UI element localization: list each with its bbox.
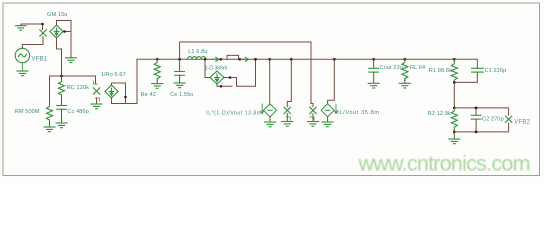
capacitor C1 220p [472, 68, 484, 72]
svg-text:1/Ro 6.67: 1/Ro 6.67 [101, 72, 126, 78]
ground below R2 [449, 139, 460, 144]
node dot C2 bottom [475, 131, 478, 134]
wire riser to diamond D1 [269, 59, 271, 105]
wire bus to Cout [373, 59, 375, 68]
node dot R2 bottom [453, 131, 456, 134]
node dot riser D2 [333, 58, 336, 61]
ground below D1 [265, 122, 276, 127]
node dot R1 bottom [453, 81, 456, 84]
capacitor Ce 1.55n [175, 59, 185, 75]
node dot riser X1 [290, 58, 293, 61]
pin tick below X2 [310, 117, 314, 120]
wire GM bottom to left bus with jog [57, 38, 62, 76]
ground below RM [44, 127, 55, 132]
wire X1 to ground [286, 114, 288, 122]
svg-text:Cout 22u: Cout 22u [380, 65, 404, 71]
svg-text:IL*(1-D)/Vout 13.8m: IL*(1-D)/Vout 13.8m [206, 110, 261, 116]
resistor RL 64 [402, 59, 408, 80]
wire R2 to ground [453, 132, 455, 139]
wire R1 bottom to R2 top [453, 82, 455, 108]
ground below GM loop [66, 58, 77, 63]
svg-text:RC 120k: RC 120k [67, 85, 90, 91]
pin tick above X of 1/Ro [94, 81, 98, 84]
svg-text:VFB1: VFB1 [32, 56, 48, 62]
node dot before arrow 2 [238, 58, 241, 61]
current arrow tick left of D1 [261, 104, 264, 114]
source VFB1 (sine circle) [15, 48, 29, 62]
wire GM output loop to ground [57, 21, 72, 58]
node dot Re junction [156, 58, 159, 61]
wire RM to ground [49, 122, 51, 127]
svg-text:VFB2: VFB2 [514, 120, 530, 126]
node dot at GM input corner [41, 23, 44, 26]
resistor R1 98.6k [451, 59, 457, 82]
svg-text:R2 12.9k: R2 12.9k [428, 111, 451, 117]
current arrow tick right of D2 [335, 104, 338, 114]
wire D1 to ground [269, 117, 271, 122]
ground G1 (input of GM multiplier) [16, 26, 27, 31]
node dot after arrow 1 [220, 58, 223, 61]
wire 1-D bottom stub [217, 84, 232, 86]
capacitor Cc 486p [57, 106, 67, 110]
pin tick below X of 1/Ro [96, 98, 100, 101]
node dot Ce / bypass riser junction [178, 58, 181, 61]
node dot 1-D left riser [204, 58, 207, 61]
inductor L1 6.8u [188, 57, 206, 60]
svg-text:IL/Vout 35.8m: IL/Vout 35.8m [337, 110, 379, 116]
wire 1/Ro diamond top bracket [112, 83, 126, 104]
svg-text:1-D 366m: 1-D 366m [205, 66, 228, 72]
node dot R1 top [453, 58, 456, 61]
wire Cc to ground [61, 109, 63, 122]
svg-text:RL 64: RL 64 [410, 65, 425, 71]
dependent source IL/Vout 35.8m (diamond D2) [321, 104, 334, 117]
wire Ce to ground [179, 75, 181, 82]
capacitor C2 270p [471, 108, 481, 132]
wire hump between transformer halves [227, 55, 239, 59]
ground below X1 [282, 122, 293, 127]
wire middle bus [137, 58, 454, 60]
svg-text:RM 500M: RM 500M [15, 109, 40, 115]
resistor RC 120k [59, 82, 65, 96]
wire 1/Ro bottom to middle bus [112, 59, 138, 103]
ground below Cout [368, 83, 379, 88]
node dot 1-D bottom [220, 85, 223, 88]
wire X2 to ground [312, 114, 314, 122]
node dot 1-D right vertex [229, 76, 232, 79]
wire VFB1 top to X bottom [22, 37, 43, 49]
wire 1-D right branch to bus [224, 59, 256, 86]
wire X to ground [96, 98, 98, 104]
resistor RM 500M [47, 105, 53, 122]
wire riser to X1 [287, 59, 291, 107]
polarity arrow 1 of ideal transformer [212, 57, 220, 61]
wire D2 to ground [327, 117, 329, 122]
dependent source IL*(1-D)/Vout 13.8m (diamond D1) [264, 104, 277, 117]
svg-text:Re 42: Re 42 [141, 92, 156, 98]
node dot riser D1 [268, 58, 271, 61]
ground below Re [152, 84, 163, 89]
svg-text:Cc 486p: Cc 486p [67, 109, 89, 115]
wire Cout to ground [373, 72, 375, 83]
ground below D2 [322, 122, 333, 127]
capacitor Cout 22u [369, 68, 379, 72]
wire bypass riser to X2 [311, 104, 313, 107]
node dot GM right vertex [63, 30, 66, 33]
node dot 1/Ro bracket [124, 96, 127, 99]
wire RL to ground [404, 80, 406, 83]
node dot RL [403, 58, 406, 61]
pin tick below X1 [286, 117, 290, 120]
node dot Cout [372, 58, 375, 61]
ground below RL [399, 83, 410, 88]
wire 1-D left riser [205, 59, 210, 77]
wire VFB1 bottom to ground [21, 63, 23, 71]
svg-text:C1 220p: C1 220p [485, 68, 507, 74]
ground below Ce [174, 83, 185, 88]
wire C1 bracket [454, 59, 477, 82]
wire C2 top bracket to VFB2 [454, 108, 508, 115]
wire riser to diamond D2 [328, 59, 335, 104]
probe X VFB2 [505, 116, 511, 122]
ground below 1/Ro X [91, 104, 102, 109]
node dot R2 top [453, 107, 456, 110]
border frame (decorative) [3, 3, 540, 176]
node dot left bus / RC junction [60, 75, 63, 78]
resistor Re 42 [154, 59, 160, 80]
polarity arrow 2 of ideal transformer [242, 57, 249, 61]
multiplier X1 [284, 107, 290, 113]
dependent source 1-D 366m (diamond) [210, 71, 224, 84]
wire C2 bottom bracket to VFB2 [454, 123, 508, 132]
wire bus to RC [61, 76, 63, 82]
svg-text:R1 98.6k: R1 98.6k [429, 68, 452, 74]
wire left bus [50, 76, 96, 105]
wire top bypass [180, 42, 311, 104]
dependent source GM 15u (diamond) [50, 25, 63, 38]
wire Re to ground [156, 80, 158, 83]
svg-text:C2 270p: C2 270p [482, 116, 504, 122]
dependent source 1/Ro 6.67 (diamond) [105, 85, 118, 98]
ground below X2 [308, 122, 319, 127]
svg-text:Ce 1.55n: Ce 1.55n [170, 92, 194, 98]
svg-text:L1 6.8u: L1 6.8u [188, 49, 207, 55]
ground below VFB1 [17, 71, 28, 76]
multiplier X of 1/Ro source [93, 88, 99, 94]
svg-text:www.cntronics.com: www.cntronics.com [358, 152, 530, 176]
wire RC to Cc [61, 95, 63, 105]
ground below Cc [56, 123, 67, 128]
svg-text:GM 15u: GM 15u [47, 12, 68, 18]
multiplier X2 [310, 107, 316, 113]
node dot C2 top [475, 107, 478, 110]
multiplier X of GM source [40, 30, 46, 36]
node dot where 1-D branch joins bus [254, 58, 257, 61]
resistor R2 12.9k [451, 108, 457, 132]
wire ground G1 to X of GM [21, 24, 43, 30]
